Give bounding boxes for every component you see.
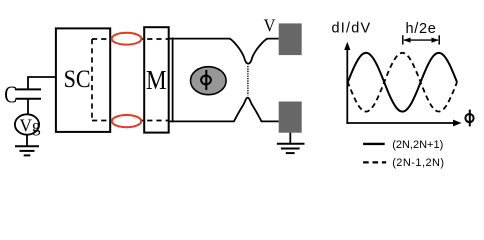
- svg-text:SC: SC: [64, 66, 91, 93]
- svg-text:(2N-1,2N): (2N-1,2N): [392, 157, 444, 169]
- svg-text:M: M: [146, 64, 167, 95]
- svg-text:C: C: [4, 82, 17, 109]
- svg-text:Vg: Vg: [20, 115, 41, 135]
- svg-text:dI/dV: dI/dV: [332, 21, 372, 37]
- svg-text:(2N,2N+1): (2N,2N+1): [392, 139, 443, 151]
- svg-text:h/2e: h/2e: [406, 21, 437, 37]
- svg-text:V: V: [264, 15, 276, 35]
